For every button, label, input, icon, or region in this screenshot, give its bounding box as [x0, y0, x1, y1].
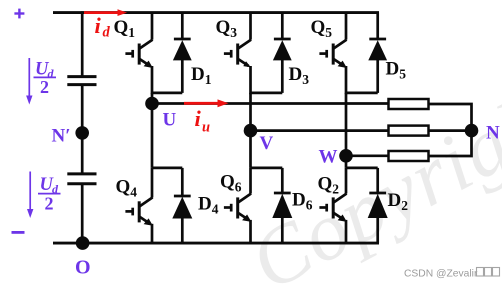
- diode D1 top lead: [181, 13, 184, 41]
- svg-text:D1: D1: [191, 64, 212, 87]
- diode D6 top lead: [281, 168, 284, 194]
- node N': [75, 126, 89, 140]
- diode D2 bottom lead: [376, 217, 379, 244]
- node O: [76, 236, 90, 250]
- transistor Q5 collector lead: [345, 13, 348, 40]
- wire Q5 emitter lead: [345, 66, 348, 94]
- diode D4 triangle: [172, 197, 192, 219]
- capacitor C2 plates: [67, 174, 96, 184]
- wire resistor V to node N: [429, 129, 472, 132]
- svg-text:D5: D5: [386, 59, 407, 82]
- wire resistor W to rail: [429, 131, 472, 156]
- svg-text:U: U: [163, 109, 177, 130]
- resistor load V: [389, 126, 429, 136]
- wire Q3-D3 tie: [251, 92, 283, 95]
- svg-text:2: 2: [45, 194, 54, 214]
- wire phase W drop: [345, 93, 348, 168]
- svg-text:V: V: [260, 133, 274, 154]
- transistor Q3 emitter arrow: [243, 61, 251, 67]
- diode D5 triangle: [368, 40, 387, 60]
- svg-text:d: d: [103, 25, 111, 41]
- wire Q3 emitter lead: [249, 66, 252, 94]
- wire capacitor branch upper: [81, 11, 84, 76]
- diode D4 bottom lead: [181, 217, 184, 243]
- label Ud/2 upper arrow: [26, 58, 32, 105]
- transistor Q1 symbol: [125, 40, 152, 66]
- wire bottom bus: [53, 242, 379, 245]
- wire resistor U to rail: [429, 104, 472, 131]
- current arrow iu: [184, 99, 229, 107]
- svg-text:i: i: [95, 13, 102, 38]
- wire Q4 emitter lead: [151, 224, 154, 243]
- diode D2 triangle: [368, 194, 388, 218]
- transistor Q4 collector lead: [151, 168, 154, 198]
- transistor Q2 collector lead: [345, 168, 348, 194]
- diode D6 cathode bar: [274, 192, 291, 195]
- svg-text:D4: D4: [198, 194, 219, 217]
- diode D3 top lead: [281, 13, 284, 41]
- transistor Q2 emitter arrow: [338, 215, 347, 222]
- capacitor C1 plates: [67, 77, 96, 85]
- svg-text:D3: D3: [289, 64, 310, 87]
- diode D5 top lead: [376, 13, 379, 41]
- watermark CSDN credit: [404, 268, 500, 280]
- wire Q2-D2 tie: [346, 167, 378, 170]
- diode D5 bottom lead: [376, 59, 379, 93]
- transistor Q2 symbol: [319, 194, 346, 220]
- transistor Q6 collector lead: [249, 168, 252, 194]
- wire phase V drop: [249, 93, 252, 168]
- svg-text:Q6: Q6: [220, 172, 242, 195]
- diode D3 triangle: [273, 40, 292, 60]
- wire Q6 emitter lead: [249, 220, 252, 243]
- wire Q4-D4 tie: [152, 167, 182, 170]
- wire Q5-D5 tie: [346, 92, 378, 95]
- transistor Q1 emitter arrow: [144, 61, 153, 68]
- svg-text:N′: N′: [52, 126, 71, 147]
- svg-text:CSDN @Zevalir: CSDN @Zevalir: [404, 269, 478, 280]
- diode D2 cathode bar: [369, 192, 386, 195]
- label + terminal: [14, 9, 24, 19]
- svg-text:W: W: [319, 146, 338, 167]
- svg-text:Q1: Q1: [114, 17, 136, 40]
- wire Q1-D1 tie: [152, 92, 182, 95]
- wire top bus: [53, 11, 379, 14]
- svg-text:i: i: [195, 106, 202, 131]
- label Ud/2 upper text: [35, 60, 55, 98]
- resistor load U: [389, 99, 429, 109]
- wire Q2 emitter lead: [345, 220, 348, 243]
- diode D6 bottom lead: [281, 217, 284, 244]
- wire phase U drop: [151, 93, 154, 168]
- diode D5 cathode bar: [369, 38, 386, 41]
- diode D6 triangle: [272, 194, 292, 218]
- transistor Q6 emitter arrow: [242, 215, 251, 222]
- svg-text:u: u: [202, 120, 210, 136]
- diode D2 top lead: [376, 168, 379, 194]
- transistor Q3 symbol: [224, 40, 251, 66]
- node N: [465, 124, 479, 138]
- transistor Q5 emitter arrow: [338, 61, 347, 68]
- transistor Q5 symbol: [319, 40, 346, 66]
- svg-text:O: O: [75, 257, 91, 279]
- diode D1 bottom lead: [181, 59, 184, 93]
- wire capacitor branch middle: [81, 85, 84, 174]
- wire Q6-D6 tie: [251, 167, 283, 170]
- wire U output line: [152, 102, 389, 105]
- label Ud/2 lower fraction bar: [38, 193, 61, 195]
- label id current: [95, 13, 111, 41]
- diode D4 top lead: [181, 168, 184, 197]
- label Ud/2 lower text: [40, 175, 60, 214]
- wire W output line: [346, 154, 389, 157]
- diode D3 cathode bar: [274, 38, 291, 41]
- transistor Q4 symbol: [125, 197, 152, 223]
- node V: [244, 124, 258, 138]
- node U: [145, 97, 159, 111]
- resistor load W: [389, 151, 429, 161]
- diode D1 triangle: [173, 40, 192, 60]
- wire capacitor branch lower: [81, 184, 84, 243]
- label Ud/2 upper fraction bar: [34, 76, 57, 78]
- svg-text:Q3: Q3: [216, 17, 238, 40]
- wire V output line: [251, 129, 389, 132]
- node W: [339, 149, 353, 163]
- svg-text:2: 2: [40, 77, 49, 97]
- wire Q1 emitter lead: [151, 66, 154, 94]
- transistor Q6 symbol: [224, 194, 251, 220]
- current arrow id: [84, 9, 127, 16]
- svg-text:Q4: Q4: [116, 177, 138, 200]
- svg-text:Q5: Q5: [311, 17, 333, 40]
- transistor Q1 collector lead: [151, 13, 154, 40]
- diode D3 bottom lead: [281, 59, 284, 93]
- label Ud/2 lower arrow: [27, 172, 33, 219]
- label - terminal: [12, 231, 25, 234]
- svg-text:Copyright: Copyright: [236, 65, 502, 285]
- transistor Q3 collector lead: [249, 13, 252, 40]
- svg-text:N: N: [486, 123, 500, 144]
- diode D4 cathode bar: [174, 195, 191, 198]
- diode D1 cathode bar: [174, 38, 191, 41]
- label iu current: [195, 106, 211, 136]
- transistor Q4 emitter arrow: [144, 218, 153, 225]
